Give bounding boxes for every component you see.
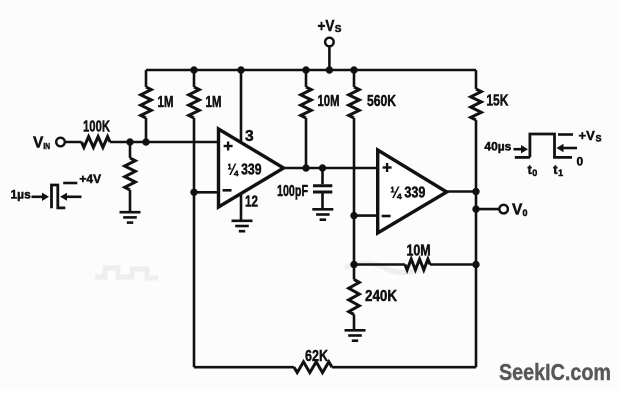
wire right column down to bottom rail — [475, 120, 478, 367]
svg-text:S: S — [596, 133, 602, 143]
waveform baseline left — [515, 156, 530, 159]
svg-text:1µs: 1µs — [11, 188, 32, 202]
node rail/10M — [302, 66, 309, 73]
svg-text:V: V — [512, 202, 523, 219]
faint scan smudges (decorative) — [95, 263, 420, 278]
wire top supply rail — [146, 69, 476, 72]
node U1 minus — [190, 189, 197, 196]
U2 plus sign — [383, 163, 392, 172]
resistor R 1M (second) — [193, 70, 196, 87]
node U1out/10M — [302, 164, 309, 171]
capacitor C 100pF — [321, 168, 324, 184]
resistor R 15K — [475, 70, 478, 89]
wire 1M column down to feedback bottom rail — [193, 118, 196, 367]
svg-text:0: 0 — [523, 208, 528, 218]
svg-text:62K: 62K — [305, 348, 328, 365]
op-amp U1 1/4 339 — [219, 129, 284, 207]
svg-text:1: 1 — [558, 168, 563, 178]
arrow left at 40us pulse — [557, 144, 564, 152]
svg-text:3: 3 — [245, 128, 254, 145]
resistor R 10M (top) — [305, 70, 308, 87]
U1 plus sign — [224, 142, 233, 151]
terminal V0 — [499, 205, 508, 214]
resistor R 240K — [353, 265, 356, 280]
node U2out/right column — [472, 188, 479, 195]
resistor R 10M (feedback) — [405, 259, 430, 270]
svg-text:+4V: +4V — [79, 172, 101, 186]
wire 560K column down to 240K node — [353, 118, 356, 265]
node rail/1M2 — [190, 66, 197, 73]
svg-text:1M: 1M — [206, 94, 222, 111]
resistor R 1M (first) — [145, 70, 148, 87]
svg-text:S: S — [335, 24, 342, 35]
node feedback/right column — [472, 261, 479, 268]
svg-text:240K: 240K — [365, 288, 397, 305]
node rail/+Vs — [326, 66, 333, 73]
svg-text:100pF: 100pF — [277, 183, 308, 200]
svg-text:15K: 15K — [486, 93, 508, 110]
wire Vin to 100K — [65, 141, 82, 144]
wire U2 minus input from 560K column — [354, 214, 378, 217]
wire U1 pin 3 supply from rail — [240, 70, 243, 144]
wire bottom feedback rail — [194, 366, 294, 369]
wire U1 output to U2 plus input — [284, 167, 378, 170]
svg-text:40µs: 40µs — [484, 140, 511, 154]
wire U2 output to right column — [447, 190, 476, 193]
svg-text:SeekIC.com: SeekIC.com — [499, 359, 611, 385]
arrow left at 1us pulse — [60, 193, 67, 201]
op-amp U2 1/4 339 — [378, 150, 447, 233]
U2 minus sign — [382, 215, 391, 218]
ground of capacitor — [312, 209, 333, 219]
ground of 240K — [345, 330, 366, 340]
node rail/pin3 — [237, 66, 244, 73]
wire U1 minus input — [194, 191, 219, 194]
svg-text:0: 0 — [532, 168, 537, 178]
svg-text:10M: 10M — [318, 93, 340, 110]
ground of input resistor — [120, 212, 141, 222]
resistor R 100K — [82, 137, 111, 148]
wire U1 pin 12 to ground — [240, 193, 243, 220]
svg-text:0: 0 — [577, 155, 584, 169]
arrow right at 40us pulse — [514, 148, 522, 151]
node U1out/cap — [319, 164, 326, 171]
pulse waveform 40us — [530, 134, 572, 157]
svg-text:IN: IN — [43, 141, 50, 151]
svg-text:12: 12 — [245, 194, 258, 211]
+Vs level dash — [558, 133, 573, 136]
+4V level dash — [63, 182, 77, 185]
resistor (unlabeled, to ground at Vin node) — [129, 142, 132, 158]
resistor R 560K — [353, 70, 356, 87]
svg-text:10M: 10M — [407, 242, 431, 259]
resistor R 62K — [294, 362, 332, 373]
node Vin/gnd-resistor — [126, 138, 133, 145]
wire V0 tap — [476, 208, 499, 211]
node Vin/1M1 — [142, 138, 149, 145]
node V0 tap — [472, 205, 479, 212]
svg-text:100K: 100K — [83, 118, 110, 135]
node U2 minus/560K — [350, 212, 357, 219]
pulse waveform 1us — [52, 185, 66, 208]
arrow right at 1us pulse — [32, 196, 43, 199]
svg-text:1M: 1M — [158, 94, 174, 111]
svg-text:¼ 339: ¼ 339 — [390, 185, 425, 202]
wire 100K to op-amp U1 plus input — [110, 141, 219, 144]
terminal +Vs — [325, 38, 334, 47]
node 240K/feedback — [350, 261, 357, 268]
svg-text:+V: +V — [579, 128, 596, 143]
ground of U1 pin 12 — [232, 221, 253, 231]
node rail/560K — [350, 66, 357, 73]
svg-text:+V: +V — [318, 18, 336, 35]
svg-text:560K: 560K — [367, 93, 396, 110]
svg-text:¼ 339: ¼ 339 — [228, 162, 262, 179]
U1 minus sign — [223, 189, 232, 192]
wire +Vs drop — [328, 47, 331, 71]
wire feedback rail — [354, 263, 405, 266]
terminal Vin — [56, 138, 65, 147]
